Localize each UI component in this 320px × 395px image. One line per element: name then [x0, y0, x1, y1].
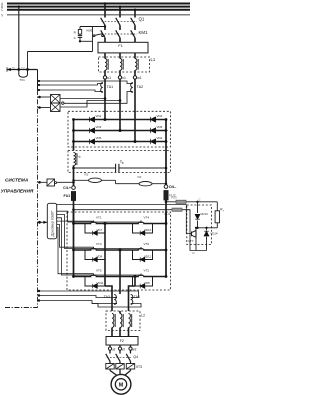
- wire TA4 top to control: [38, 291, 139, 298]
- reactor L1 box: [99, 57, 150, 72]
- inverter row VT1/VT4: [74, 223, 167, 225]
- transistor VT4: [139, 223, 143, 225]
- contactor KM1 pole 1: [101, 30, 105, 37]
- KM1 linkage: [102, 33, 138, 35]
- svg-text:VT6: VT6: [144, 242, 150, 246]
- svg-text:XT3: XT3: [136, 365, 142, 369]
- wire phase w2: [134, 277, 136, 287]
- L1 coil 1: [104, 53, 106, 59]
- CT TA4: [128, 294, 130, 311]
- svg-text:FU: FU: [22, 67, 25, 69]
- svg-text:VT5: VT5: [96, 268, 102, 272]
- wire phase u2: [104, 224, 106, 287]
- svg-text:УПРАВЛЕНИЯ: УПРАВЛЕНИЯ: [1, 188, 34, 193]
- wire phase v2: [119, 250, 121, 294]
- svg-text:v1: v1: [122, 76, 126, 80]
- diode VD2: [150, 139, 155, 144]
- wire motor w: [130, 369, 132, 371]
- svg-text:ф: ф: [79, 156, 81, 159]
- svg-text:F2: F2: [120, 339, 124, 343]
- junction TV1 b: [26, 68, 29, 71]
- wire TV1 tap from B: [18, 7, 20, 70]
- svg-text:L1: L1: [151, 57, 156, 62]
- terminal D/L-: [164, 185, 168, 189]
- DC- bus inverter: [165, 212, 167, 277]
- CT TA2: [131, 83, 133, 93]
- svg-text:F1: F1: [118, 44, 122, 48]
- svg-text:Драйвер IGBT: Драйвер IGBT: [50, 210, 55, 237]
- wire TA3 bottom to control: [38, 301, 118, 304]
- wire sensor3 out: [57, 181, 74, 183]
- bus line B: [7, 6, 190, 8]
- wire sensor1 tap u1: [60, 98, 105, 100]
- L2 coil 2: [119, 294, 121, 314]
- svg-text:u1: u1: [107, 76, 111, 80]
- fuse FU3: [176, 200, 186, 203]
- inverter row VT5/VT2: [74, 276, 167, 278]
- svg-text:VD3: VD3: [96, 125, 102, 129]
- capacitor C: [79, 34, 81, 36]
- DC- bus mid: [165, 147, 167, 185]
- svg-text:D: D: [193, 251, 195, 255]
- svg-text:VD1: VD1: [96, 114, 102, 118]
- svg-text:VT7: VT7: [188, 239, 194, 243]
- wire driver input: [38, 221, 48, 223]
- transistor VT2: [139, 276, 143, 278]
- diode VD14: [206, 228, 208, 231]
- sensor box 1: [51, 95, 61, 104]
- wire RC bypass top: [80, 26, 105, 28]
- fuse FU2: [164, 191, 168, 201]
- wire TV1 horizontal: [7, 69, 38, 71]
- terminal v1: [118, 76, 121, 79]
- diode VD6: [150, 128, 155, 133]
- svg-text:VD12: VD12: [144, 254, 152, 258]
- reactor L2 box: [106, 311, 140, 331]
- svg-text:C: C: [199, 198, 201, 202]
- svg-text:w1: w1: [137, 76, 141, 80]
- gate wire VT3: [57, 224, 94, 247]
- inverter box: [67, 212, 171, 290]
- svg-text:VD4: VD4: [157, 114, 163, 118]
- wire motor v: [119, 369, 121, 375]
- terminal w2: [130, 345, 132, 347]
- wire sensor3 in: [38, 181, 48, 183]
- breaker Q1 pole 3: [134, 14, 136, 17]
- breaker Q1 pole 2: [119, 14, 121, 17]
- thermal relay F1: [98, 42, 148, 53]
- CT TA3: [111, 294, 113, 311]
- wire right branch: [92, 27, 94, 52]
- wire FU4 feed: [72, 208, 75, 211]
- rectifier row 2: [74, 130, 167, 132]
- wire VT7 gate: [56, 205, 190, 234]
- svg-text:VD13: VD13: [201, 212, 209, 216]
- svg-text:FU: FU: [12, 67, 15, 69]
- svg-text:VT2: VT2: [144, 268, 150, 272]
- terminal block XT3-1: [106, 364, 114, 370]
- svg-text:VD8: VD8: [144, 281, 150, 285]
- arrow to control: [7, 68, 11, 71]
- rectifier row 1: [74, 119, 167, 121]
- svg-text:VT4: VT4: [144, 215, 150, 219]
- wire v1 down: [119, 79, 121, 130]
- svg-text:TV1: TV1: [19, 78, 25, 82]
- resistor R: [79, 27, 81, 30]
- svg-text:R2: R2: [85, 172, 89, 176]
- motor M: [111, 374, 131, 394]
- contactor KM1 pole 2: [116, 30, 120, 37]
- transistor VT5: [91, 276, 95, 278]
- sensor nub: [62, 102, 64, 104]
- svg-text:KM1: KM1: [139, 30, 149, 35]
- terminal C/L+: [72, 186, 76, 190]
- wire motor u: [109, 369, 111, 371]
- divider wire lower: [116, 183, 140, 185]
- wire RC bottom: [79, 40, 81, 42]
- wire TA2 top to control: [38, 81, 130, 84]
- gate wire VT5: [57, 228, 94, 274]
- svg-text:VD5: VD5: [96, 136, 102, 140]
- chopper box: [187, 205, 212, 245]
- svg-text:u2: u2: [112, 347, 116, 351]
- svg-text:Q4: Q4: [133, 355, 138, 359]
- svg-text:ф: ф: [122, 162, 124, 165]
- fuse FU4: [172, 208, 182, 211]
- brake resistor Rt: [216, 202, 218, 211]
- diode VD5: [89, 139, 94, 144]
- DC+ bus upper: [73, 120, 75, 151]
- bus line N: [7, 14, 190, 16]
- diode loop VD11: [85, 277, 105, 287]
- divider wire upper: [74, 179, 89, 181]
- svg-text:KM1: KM1: [87, 29, 94, 33]
- svg-text:L2: L2: [141, 314, 145, 318]
- rectifier box: [68, 111, 171, 147]
- transistor VT3: [91, 249, 95, 251]
- transistor VT7: [195, 228, 197, 231]
- driver box: [47, 203, 56, 239]
- wire TA3 top to control: [38, 296, 118, 298]
- bus line C: [7, 9, 190, 11]
- control system boundary bottom: [5, 307, 38, 309]
- L2 coil 1: [112, 314, 114, 328]
- wire w1 down: [134, 79, 136, 141]
- svg-text:VT1: VT1: [96, 215, 102, 219]
- gate wire VT4: [57, 211, 141, 222]
- switch Q4 pole 3: [130, 350, 132, 353]
- svg-text:VD6: VD6: [157, 125, 163, 129]
- gate wire VT6: [57, 215, 141, 249]
- terminal u1: [103, 76, 106, 79]
- svg-text:TA4: TA4: [134, 295, 140, 299]
- diode VD1: [89, 117, 94, 122]
- fuse FU1: [71, 192, 75, 201]
- wire FU3 feed: [165, 201, 168, 204]
- svg-text:FU1: FU1: [64, 194, 71, 198]
- resistor R3: [139, 182, 152, 186]
- terminal block XT3-3: [126, 364, 134, 370]
- filter capacitor Cf: [74, 167, 116, 169]
- svg-text:w2: w2: [132, 347, 136, 351]
- svg-text:VD2: VD2: [157, 136, 163, 140]
- sensor box 2: [51, 103, 61, 112]
- diode VD4: [150, 117, 155, 122]
- wire sensor2 in: [38, 107, 51, 109]
- filter choke Lf: [74, 153, 76, 166]
- transistor VT6: [139, 249, 143, 251]
- wire phase-w drop from C: [134, 10, 136, 15]
- breaker Q1 pole 1: [104, 14, 106, 17]
- diode loop VD10: [133, 224, 153, 234]
- transistor VT1: [91, 223, 95, 225]
- svg-text:v2: v2: [122, 347, 126, 351]
- junction TV1 a: [17, 68, 20, 71]
- Q4 linkage: [107, 356, 132, 358]
- thermal relay F2: [106, 337, 138, 346]
- wire phase-u drop from A: [104, 4, 106, 15]
- svg-text:TA1: TA1: [107, 85, 113, 89]
- filter box: [68, 151, 171, 173]
- svg-text:VT3: VT3: [96, 242, 102, 246]
- CT TA1: [101, 83, 103, 93]
- transformer TV1 winding: [18, 70, 20, 75]
- switch Q4 pole 1: [109, 350, 111, 353]
- wire TA1 bottom to control: [38, 90, 100, 92]
- DC+ bus inverter: [73, 212, 75, 277]
- diode loop VD8: [133, 277, 153, 287]
- DC+ bus to terminal: [73, 166, 75, 186]
- svg-text:M: M: [119, 382, 124, 388]
- svg-text:VD14: VD14: [210, 232, 218, 236]
- inverter row VT3/VT6: [74, 249, 167, 251]
- wire TA2 bottom: [64, 92, 130, 104]
- control system boundary vertical: [37, 70, 39, 91]
- terminal v2: [119, 345, 121, 347]
- wire to TV1 node: [28, 51, 93, 53]
- svg-text:VD10: VD10: [144, 228, 152, 232]
- resistor R2: [89, 178, 102, 182]
- svg-text:VD9: VD9: [97, 254, 103, 258]
- svg-text:FU3: FU3: [171, 195, 177, 199]
- contactor KM1 pole 3: [131, 30, 135, 37]
- svg-text:VD7: VD7: [97, 228, 103, 232]
- svg-text:D/L-: D/L-: [169, 185, 177, 189]
- L2 coil 3: [129, 314, 131, 328]
- svg-text:TA2: TA2: [137, 85, 143, 89]
- svg-text:VD11: VD11: [97, 281, 104, 285]
- terminal w1: [133, 76, 136, 79]
- bus line A: [7, 3, 190, 5]
- wire sensor2 tap v1: [60, 101, 120, 108]
- gate wire VT1: [57, 220, 94, 222]
- wire u1 down: [104, 79, 106, 119]
- diode VD3: [89, 128, 94, 133]
- svg-text:TA3: TA3: [104, 295, 110, 299]
- chopper mid wire: [198, 227, 218, 229]
- sensor box 3: [47, 179, 55, 186]
- diode VD13: [197, 202, 199, 213]
- terminal block XT3-2: [116, 364, 124, 370]
- wire phase-v drop from B: [119, 7, 121, 15]
- svg-text:СИСТЕМА: СИСТЕМА: [5, 177, 29, 182]
- Q1 linkage: [102, 20, 138, 22]
- diode loop VD12: [133, 250, 153, 260]
- diode loop VD7: [85, 224, 105, 234]
- rectifier row 3: [74, 141, 167, 143]
- terminal u2: [109, 345, 111, 347]
- switch Q4 pole 2: [119, 350, 121, 353]
- diode loop VD9: [85, 250, 105, 260]
- L1 coil 3: [134, 53, 136, 59]
- wire TA1 top to control: [38, 84, 100, 86]
- DC- bus upper: [165, 120, 167, 148]
- svg-text:C/L+: C/L+: [63, 186, 71, 190]
- wire TA4 bottom: [92, 304, 141, 308]
- svg-text:R3: R3: [138, 175, 142, 179]
- wire sensor1 in: [38, 96, 51, 98]
- svg-text:Q1: Q1: [139, 16, 145, 21]
- L1 coil 2: [119, 53, 121, 59]
- gate wire VT2: [57, 218, 141, 275]
